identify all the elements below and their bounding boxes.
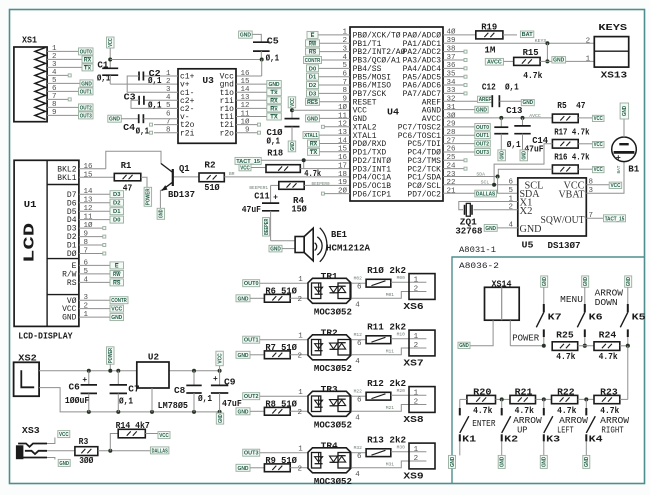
svg-text:M31: M31 <box>386 462 395 468</box>
svg-text:R25: R25 <box>556 331 574 341</box>
svg-text:VCC: VCC <box>62 306 77 314</box>
svg-text:M21: M21 <box>386 405 395 411</box>
svg-text:GND: GND <box>584 457 590 468</box>
svg-text:PC2/TCK: PC2/TCK <box>407 166 441 174</box>
svg-text:DALLAS: DALLAS <box>152 448 168 454</box>
svg-text:3: 3 <box>84 294 89 302</box>
svg-text:POWER: POWER <box>108 348 114 363</box>
svg-text:C9: C9 <box>224 377 236 387</box>
svg-text:BEEPER1: BEEPER1 <box>249 185 268 191</box>
svg-text:14: 14 <box>84 188 94 196</box>
svg-text:VCC: VCC <box>594 167 603 173</box>
svg-text:XS1: XS1 <box>22 35 37 46</box>
svg-text:PC6/TOSC1: PC6/TOSC1 <box>398 133 442 141</box>
svg-text:PB5/MOSI: PB5/MOSI <box>353 74 391 82</box>
svg-text:32768: 32768 <box>455 227 482 237</box>
svg-text:Tx: Tx <box>270 90 278 96</box>
svg-text:3ØØ: 3ØØ <box>79 456 94 466</box>
svg-text:M11: M11 <box>386 349 395 355</box>
svg-text:c1+: c1+ <box>180 74 195 82</box>
svg-text:PA3/ADC3: PA3/ADC3 <box>403 58 442 66</box>
svg-text:c2-: c2- <box>180 106 194 114</box>
svg-text:r2i: r2i <box>180 130 195 138</box>
svg-text:K7: K7 <box>548 312 562 322</box>
svg-text:GND: GND <box>237 353 248 359</box>
svg-text:PD5/OC1B: PD5/OC1B <box>353 183 392 191</box>
svg-text:17: 17 <box>338 162 347 170</box>
svg-text:GND: GND <box>450 457 456 468</box>
svg-text:K2: K2 <box>504 434 518 444</box>
svg-text:38: 38 <box>447 45 456 53</box>
svg-text:1Ø: 1Ø <box>338 103 348 112</box>
svg-text:r2o: r2o <box>220 130 235 138</box>
svg-text:PB3/QCØ/A1: PB3/QCØ/A1 <box>353 57 401 66</box>
svg-text:PC7/TOSC2: PC7/TOSC2 <box>398 124 442 132</box>
svg-text:R13 2k2: R13 2k2 <box>367 436 406 446</box>
svg-text:1: 1 <box>586 55 591 63</box>
svg-text:AREF: AREF <box>479 97 492 103</box>
svg-text:5: 5 <box>342 62 347 70</box>
svg-text:M02: M02 <box>354 276 363 282</box>
svg-text:R2: R2 <box>204 161 215 171</box>
svg-text:1: 1 <box>414 276 419 284</box>
svg-text:4.7k: 4.7k <box>557 406 577 416</box>
svg-text:9: 9 <box>52 109 57 117</box>
svg-text:AREF: AREF <box>422 99 442 107</box>
svg-text:R12 2k2: R12 2k2 <box>367 379 406 389</box>
svg-text:D2: D2 <box>67 234 77 242</box>
svg-text:M20: M20 <box>397 388 406 394</box>
svg-text:RIGHT: RIGHT <box>601 425 624 435</box>
svg-text:28: 28 <box>447 129 456 137</box>
svg-text:RW: RW <box>113 272 121 278</box>
svg-text:A8036-2: A8036-2 <box>459 261 499 271</box>
svg-text:GND: GND <box>626 277 632 286</box>
svg-text:9: 9 <box>84 231 89 239</box>
svg-text:C3: C3 <box>124 93 136 103</box>
svg-text:LEFT: LEFT <box>557 425 574 435</box>
svg-text:RS: RS <box>67 280 77 288</box>
svg-text:XS13: XS13 <box>601 70 628 80</box>
svg-text:1: 1 <box>414 446 419 454</box>
svg-text:OUT1: OUT1 <box>80 89 92 95</box>
svg-text:4: 4 <box>355 471 360 479</box>
svg-text:XS7: XS7 <box>403 358 423 368</box>
svg-text:DS13Ø7: DS13Ø7 <box>548 241 581 251</box>
svg-text:R18: R18 <box>267 149 283 159</box>
svg-text:8: 8 <box>52 101 57 109</box>
svg-text:GND: GND <box>476 107 487 113</box>
svg-text:GND: GND <box>500 151 506 160</box>
svg-text:TACT_15: TACT_15 <box>605 216 625 222</box>
svg-text:OUT3: OUT3 <box>244 451 259 457</box>
svg-text:GND: GND <box>542 277 548 286</box>
svg-text:VCC: VCC <box>217 353 223 364</box>
svg-text:LCD: LCD <box>23 222 39 262</box>
svg-text:RX: RX <box>84 57 92 63</box>
svg-text:ENTER: ENTER <box>472 419 496 429</box>
svg-text:GND: GND <box>485 226 496 232</box>
svg-text:R11 2k2: R11 2k2 <box>367 323 406 333</box>
svg-text:4: 4 <box>166 94 171 102</box>
svg-text:GND: GND <box>111 315 122 321</box>
svg-text:PAØ/ADCØ: PAØ/ADCØ <box>403 32 442 41</box>
svg-text:7: 7 <box>342 79 347 87</box>
svg-text:15: 15 <box>240 78 250 86</box>
svg-text:D0: D0 <box>309 66 316 72</box>
svg-text:VCC: VCC <box>290 98 296 107</box>
svg-text:DALLAS: DALLAS <box>476 191 496 197</box>
svg-text:GND: GND <box>459 343 469 349</box>
svg-text:PC5/TDI: PC5/TDI <box>407 141 441 149</box>
svg-text:25: 25 <box>447 154 457 162</box>
svg-text:R1: R1 <box>121 161 132 171</box>
svg-text:8: 8 <box>342 87 347 95</box>
svg-text:9: 9 <box>342 96 347 104</box>
svg-text:+: + <box>616 153 621 163</box>
svg-text:BEEPER: BEEPER <box>264 219 270 235</box>
svg-text:5: 5 <box>52 77 57 85</box>
svg-text:2: 2 <box>342 37 347 45</box>
svg-text:16: 16 <box>338 154 348 162</box>
svg-text:M00: M00 <box>397 275 406 281</box>
svg-text:11: 11 <box>84 214 94 222</box>
svg-text:15: 15 <box>338 146 348 154</box>
svg-text:D3: D3 <box>309 91 316 97</box>
svg-text:6: 6 <box>357 284 362 292</box>
svg-text:LCD-DISPLAY: LCD-DISPLAY <box>18 331 73 341</box>
svg-text:C4: C4 <box>123 123 136 133</box>
svg-text:GND: GND <box>583 277 589 286</box>
svg-text:2: 2 <box>52 53 57 61</box>
svg-text:VCC: VCC <box>240 165 250 171</box>
svg-text:GND: GND <box>159 209 165 218</box>
svg-text:A8031-1: A8031-1 <box>459 245 496 255</box>
svg-text:E: E <box>311 33 315 39</box>
svg-text:BE1: BE1 <box>331 230 348 240</box>
svg-text:GND: GND <box>307 116 318 122</box>
svg-text:BAT: BAT <box>522 32 534 38</box>
svg-text:PC3/TMS: PC3/TMS <box>407 158 441 166</box>
svg-text:AGND: AGND <box>422 108 442 116</box>
svg-text:R24: R24 <box>599 331 617 341</box>
svg-text:Ø,1: Ø,1 <box>119 397 134 407</box>
svg-text:15: 15 <box>84 171 94 179</box>
svg-text:GND: GND <box>553 58 564 64</box>
svg-text:GND: GND <box>268 82 279 88</box>
svg-text:1: 1 <box>298 333 303 341</box>
svg-text:3: 3 <box>166 86 171 94</box>
svg-text:4: 4 <box>508 222 513 230</box>
svg-text:7: 7 <box>166 118 171 126</box>
svg-text:8: 8 <box>166 127 171 135</box>
svg-text:BR: BR <box>229 171 235 177</box>
svg-text:1Ø: 1Ø <box>84 221 94 230</box>
svg-text:21: 21 <box>447 188 457 196</box>
svg-text:GND: GND <box>290 142 296 151</box>
svg-text:K5: K5 <box>632 312 646 322</box>
svg-text:4.7k: 4.7k <box>556 352 576 362</box>
svg-text:23: 23 <box>447 171 457 179</box>
svg-text:XTAL1: XTAL1 <box>304 133 318 139</box>
svg-text:XS8: XS8 <box>403 415 423 425</box>
svg-text:47uF: 47uF <box>242 205 261 215</box>
svg-text:BD137: BD137 <box>168 190 195 200</box>
svg-text:M12: M12 <box>354 332 363 338</box>
svg-text:9: 9 <box>245 127 250 135</box>
svg-text:39: 39 <box>447 37 456 45</box>
svg-text:BKL1: BKL1 <box>57 175 77 183</box>
svg-text:4.7k: 4.7k <box>599 352 619 362</box>
svg-text:GND: GND <box>522 151 528 160</box>
svg-text:VØ: VØ <box>67 297 77 306</box>
svg-text:GND: GND <box>622 106 628 117</box>
svg-text:VCC: VCC <box>610 183 620 189</box>
svg-text:2Ø: 2Ø <box>338 187 348 196</box>
svg-text:6: 6 <box>342 71 347 79</box>
svg-text:XTAL1: XTAL1 <box>353 133 377 141</box>
svg-text:BEEPER0: BEEPER0 <box>312 181 330 187</box>
svg-text:C8: C8 <box>174 386 185 396</box>
svg-text:4: 4 <box>355 414 360 422</box>
svg-text:19: 19 <box>338 179 347 187</box>
svg-text:C5: C5 <box>267 36 279 46</box>
svg-text:GND: GND <box>520 224 542 235</box>
svg-text:GND: GND <box>500 457 506 468</box>
svg-text:4.7k: 4.7k <box>523 71 543 81</box>
svg-text:SCL: SCL <box>481 180 490 186</box>
svg-text:PDØ/RXD: PDØ/RXD <box>353 140 387 149</box>
svg-text:1: 1 <box>342 29 347 37</box>
svg-text:RESET: RESET <box>353 99 377 107</box>
svg-text:+: + <box>273 194 278 203</box>
svg-text:PD6/ICP1: PD6/ICP1 <box>353 191 392 199</box>
svg-text:VCC: VCC <box>111 307 122 313</box>
svg-text:PB1/T1: PB1/T1 <box>353 41 382 49</box>
svg-text:R17 4.7k: R17 4.7k <box>554 128 590 138</box>
svg-text:r1o: r1o <box>220 106 235 114</box>
svg-text:8: 8 <box>589 179 594 187</box>
svg-text:26: 26 <box>447 146 457 154</box>
svg-text:TR4: TR4 <box>321 442 339 452</box>
svg-text:RS: RS <box>309 50 317 56</box>
svg-text:PA4/ADC4: PA4/ADC4 <box>403 66 442 74</box>
svg-text:PB2/INT2/AØ: PB2/INT2/AØ <box>353 48 406 57</box>
svg-text:XS6: XS6 <box>403 302 423 312</box>
svg-text:M10: M10 <box>397 332 406 338</box>
svg-text:GND: GND <box>240 33 251 39</box>
svg-text:14: 14 <box>338 137 348 145</box>
svg-text:DØ: DØ <box>67 250 77 259</box>
svg-text:2: 2 <box>298 466 303 474</box>
svg-text:GND: GND <box>237 466 248 472</box>
svg-text:5: 5 <box>84 268 89 276</box>
svg-text:OUT3: OUT3 <box>80 113 92 119</box>
svg-text:MOC3Ø52: MOC3Ø52 <box>314 421 352 431</box>
svg-text:t1i: t1i <box>220 114 235 122</box>
svg-text:PA7/ADC7: PA7/ADC7 <box>403 91 442 99</box>
svg-text:+: + <box>82 376 87 385</box>
svg-text:t2i: t2i <box>220 122 235 130</box>
svg-text:CONTR: CONTR <box>111 298 127 304</box>
svg-text:MOC3Ø52: MOC3Ø52 <box>314 477 352 487</box>
svg-text:2: 2 <box>298 409 303 417</box>
svg-text:XTAL2: XTAL2 <box>353 124 377 132</box>
svg-text:VCC: VCC <box>159 433 169 439</box>
svg-text:6: 6 <box>52 85 57 93</box>
svg-text:GND: GND <box>237 296 248 302</box>
svg-text:E: E <box>115 263 119 269</box>
svg-text:4: 4 <box>84 276 89 284</box>
svg-text:11: 11 <box>240 110 250 118</box>
svg-text:D7: D7 <box>67 192 77 200</box>
svg-text:PA5/ADC5: PA5/ADC5 <box>403 74 442 82</box>
svg-text:4: 4 <box>355 358 360 366</box>
svg-text:1: 1 <box>298 389 303 397</box>
svg-text:D2: D2 <box>309 83 316 89</box>
svg-text:22: 22 <box>447 179 456 187</box>
svg-text:RS: RS <box>113 280 121 286</box>
svg-text:1M: 1M <box>484 46 495 56</box>
svg-text:2: 2 <box>166 78 171 86</box>
svg-text:35: 35 <box>447 71 457 79</box>
svg-text:B1: B1 <box>628 164 640 174</box>
svg-text:GND: GND <box>353 116 368 124</box>
svg-text:SQW/OUT: SQW/OUT <box>541 215 585 226</box>
svg-text:13: 13 <box>240 94 250 102</box>
svg-text:51Ø: 51Ø <box>204 183 220 193</box>
svg-text:2: 2 <box>414 286 419 294</box>
svg-text:PCØ/SCL: PCØ/SCL <box>407 182 441 191</box>
svg-text:E: E <box>72 263 77 271</box>
svg-text:6: 6 <box>357 397 362 405</box>
svg-text:36: 36 <box>447 62 457 70</box>
svg-text:GND: GND <box>109 117 120 123</box>
svg-text:1: 1 <box>298 276 303 284</box>
svg-text:12: 12 <box>84 205 93 213</box>
svg-text:4: 4 <box>52 69 57 77</box>
svg-text:KEYS: KEYS <box>598 23 627 33</box>
svg-text:6: 6 <box>166 110 171 118</box>
svg-text:OUT0: OUT0 <box>244 281 259 287</box>
svg-text:13: 13 <box>338 129 348 137</box>
svg-text:M22: M22 <box>354 389 363 395</box>
svg-text:VCC: VCC <box>353 108 368 116</box>
svg-text:GND: GND <box>237 409 248 415</box>
svg-text:15Ø: 15Ø <box>292 205 308 215</box>
svg-text:gnd: gnd <box>220 82 234 90</box>
svg-text:t2o: t2o <box>180 122 195 130</box>
svg-text:M30: M30 <box>397 445 406 451</box>
svg-text:8: 8 <box>84 239 89 247</box>
svg-text:HCM1212A: HCM1212A <box>326 244 371 254</box>
svg-text:MOC3Ø52: MOC3Ø52 <box>314 308 352 318</box>
svg-text:3: 3 <box>589 187 594 195</box>
svg-text:32: 32 <box>447 96 456 104</box>
svg-text:R15: R15 <box>523 48 539 58</box>
svg-text:GND: GND <box>542 457 548 468</box>
svg-text:3: 3 <box>52 61 57 69</box>
svg-text:RES: RES <box>307 100 318 106</box>
svg-text:2: 2 <box>298 296 303 304</box>
svg-text:Ø,1: Ø,1 <box>97 74 111 84</box>
svg-text:UP: UP <box>517 425 527 435</box>
svg-text:31: 31 <box>447 104 457 112</box>
svg-text:C1: C1 <box>97 61 109 71</box>
svg-text:D4: D4 <box>67 217 77 225</box>
svg-text:Ø,1: Ø,1 <box>148 101 162 111</box>
svg-text:XS9: XS9 <box>403 471 423 481</box>
svg-text:PC4/TDØ: PC4/TDØ <box>407 149 441 158</box>
svg-text:3Ø: 3Ø <box>447 111 457 120</box>
svg-text:1ØØuF: 1ØØuF <box>65 396 89 406</box>
svg-text:OUT0: OUT0 <box>476 125 489 131</box>
svg-text:6: 6 <box>357 453 362 461</box>
svg-text:3: 3 <box>342 45 347 53</box>
svg-text:TR2: TR2 <box>321 329 338 339</box>
svg-text:PA6/ADC6: PA6/ADC6 <box>403 83 442 91</box>
svg-text:Ø,1: Ø,1 <box>266 53 280 63</box>
svg-text:OUT2: OUT2 <box>476 141 489 147</box>
svg-text:VBAT: VBAT <box>559 190 585 201</box>
svg-text:1: 1 <box>84 311 89 319</box>
svg-text:5: 5 <box>508 187 513 195</box>
svg-text:K4: K4 <box>589 434 604 444</box>
svg-text:LM78Ø5: LM78Ø5 <box>158 401 188 411</box>
svg-text:R16 4.7k: R16 4.7k <box>554 153 590 163</box>
svg-text:2: 2 <box>586 37 591 45</box>
svg-text:D0: D0 <box>113 218 120 224</box>
svg-text:KEYS: KEYS <box>535 38 547 44</box>
svg-text:1: 1 <box>166 70 171 78</box>
svg-text:13: 13 <box>84 197 94 205</box>
svg-text:v-: v- <box>180 114 190 122</box>
svg-text:PA1/ADC1: PA1/ADC1 <box>403 41 442 49</box>
svg-text:U2: U2 <box>148 352 159 363</box>
svg-text:RX: RX <box>310 142 318 148</box>
svg-text:c1-: c1- <box>180 90 194 98</box>
svg-text:OUT0: OUT0 <box>80 49 92 55</box>
svg-text:2: 2 <box>414 399 419 407</box>
svg-text:PC1/SDA: PC1/SDA <box>407 175 441 183</box>
svg-text:Vcc: Vcc <box>220 74 235 82</box>
svg-text:6: 6 <box>508 179 513 187</box>
svg-text:C7: C7 <box>128 385 139 395</box>
svg-text:C12 Ø,1: C12 Ø,1 <box>482 82 519 92</box>
svg-text:K1: K1 <box>462 434 477 444</box>
svg-text:14: 14 <box>240 86 250 94</box>
svg-text:VCC: VCC <box>59 432 69 438</box>
svg-text:29: 29 <box>447 121 456 129</box>
svg-text:PB4/SS: PB4/SS <box>353 66 382 74</box>
svg-text:v+: v+ <box>180 82 190 90</box>
svg-text:RX: RX <box>270 98 278 104</box>
svg-text:K6: K6 <box>589 312 603 322</box>
svg-text:MENU: MENU <box>560 295 583 305</box>
svg-text:POWER: POWER <box>146 188 152 205</box>
svg-text:33: 33 <box>447 87 457 95</box>
svg-text:2: 2 <box>298 353 303 361</box>
svg-text:C11: C11 <box>254 192 270 202</box>
svg-text:18: 18 <box>338 171 347 179</box>
svg-text:SDA: SDA <box>476 172 485 178</box>
svg-text:Q1: Q1 <box>179 164 190 174</box>
svg-text:D1: D1 <box>67 243 77 251</box>
svg-text:U5: U5 <box>522 241 534 251</box>
svg-text:XS3: XS3 <box>22 425 40 436</box>
svg-text:4.7k: 4.7k <box>515 406 535 416</box>
svg-text:D1: D1 <box>309 75 316 81</box>
